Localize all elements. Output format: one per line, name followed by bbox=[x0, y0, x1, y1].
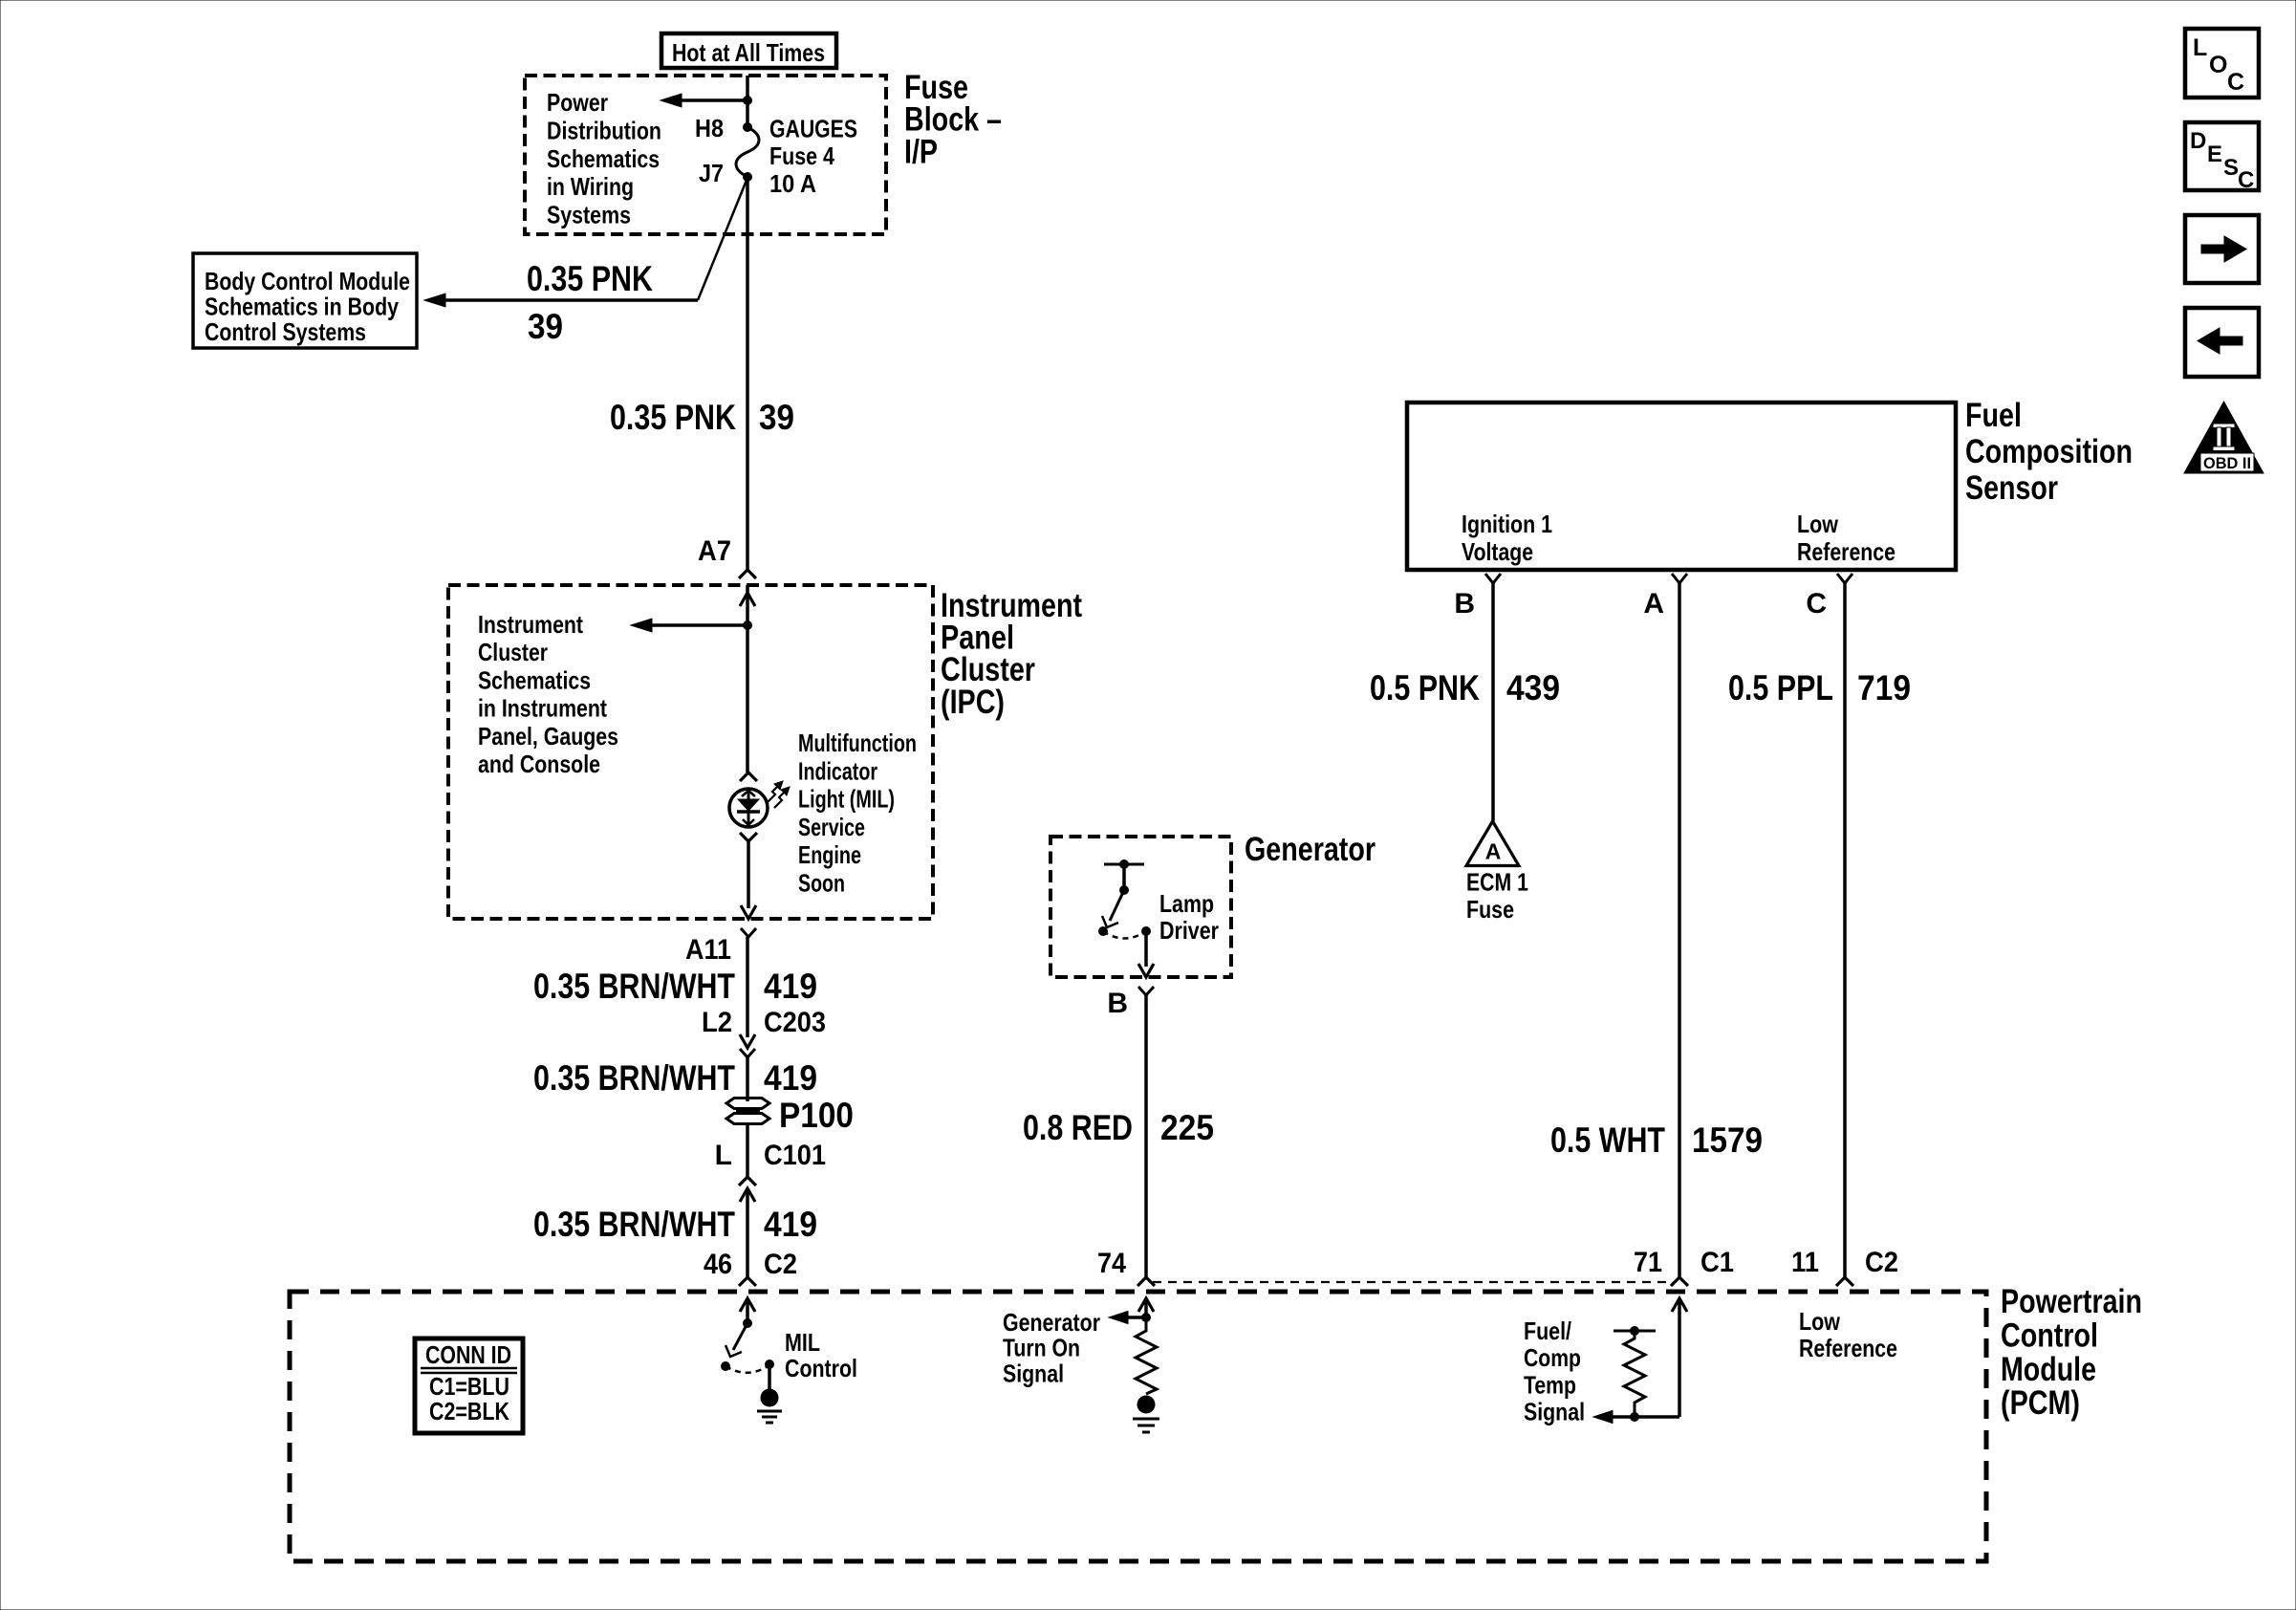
svg-text:11: 11 bbox=[1791, 1247, 1819, 1278]
svg-text:Service: Service bbox=[798, 813, 865, 841]
svg-text:Voltage: Voltage bbox=[1462, 537, 1533, 566]
svg-text:Cluster: Cluster bbox=[478, 638, 548, 666]
svg-text:Power: Power bbox=[547, 88, 608, 117]
svg-text:225: 225 bbox=[1160, 1108, 1214, 1147]
svg-text:Driver: Driver bbox=[1159, 916, 1219, 945]
svg-text:Low: Low bbox=[1799, 1307, 1841, 1336]
svg-text:ECM 1: ECM 1 bbox=[1466, 868, 1528, 897]
svg-text:A: A bbox=[1643, 588, 1664, 620]
svg-text:Lamp: Lamp bbox=[1159, 889, 1214, 918]
svg-text:Schematics in Body: Schematics in Body bbox=[205, 293, 399, 321]
svg-text:E: E bbox=[2207, 141, 2222, 167]
svg-text:Fuel/: Fuel/ bbox=[1524, 1316, 1571, 1345]
svg-text:Fuel: Fuel bbox=[1965, 397, 2022, 434]
svg-text:Indicator: Indicator bbox=[798, 756, 877, 785]
svg-text:S: S bbox=[2223, 155, 2239, 181]
svg-text:I/P: I/P bbox=[904, 133, 938, 170]
svg-text:0.35 PNK: 0.35 PNK bbox=[527, 259, 653, 298]
svg-text:Multifunction: Multifunction bbox=[798, 729, 917, 757]
svg-text:Control: Control bbox=[785, 1354, 857, 1382]
svg-text:P100: P100 bbox=[779, 1096, 854, 1135]
svg-text:C101: C101 bbox=[764, 1140, 826, 1171]
svg-text:(PCM): (PCM) bbox=[2001, 1384, 2080, 1422]
svg-text:Hot at All Times: Hot at All Times bbox=[672, 38, 825, 67]
svg-text:A11: A11 bbox=[685, 934, 731, 966]
svg-text:0.35 BRN/WHT: 0.35 BRN/WHT bbox=[533, 1205, 735, 1244]
svg-text:C2: C2 bbox=[764, 1249, 797, 1280]
svg-text:Comp: Comp bbox=[1524, 1343, 1581, 1372]
svg-text:(IPC): (IPC) bbox=[941, 684, 1005, 721]
svg-text:0.5 PPL: 0.5 PPL bbox=[1728, 668, 1833, 707]
svg-text:B: B bbox=[1454, 588, 1475, 620]
svg-text:Panel, Gauges: Panel, Gauges bbox=[478, 722, 618, 751]
svg-text:C: C bbox=[2238, 167, 2254, 193]
svg-text:GAUGES: GAUGES bbox=[769, 115, 857, 143]
svg-text:in Instrument: in Instrument bbox=[478, 694, 607, 723]
svg-text:A7: A7 bbox=[698, 535, 731, 567]
svg-text:OBD II: OBD II bbox=[2203, 454, 2251, 472]
svg-text:Reference: Reference bbox=[1799, 1334, 1897, 1362]
svg-text:L: L bbox=[715, 1140, 732, 1171]
svg-text:Distribution: Distribution bbox=[547, 116, 661, 144]
svg-text:Fuse: Fuse bbox=[1466, 895, 1514, 924]
svg-text:Body Control Module: Body Control Module bbox=[205, 267, 410, 295]
svg-text:L2: L2 bbox=[702, 1007, 732, 1038]
svg-text:46: 46 bbox=[704, 1249, 732, 1280]
svg-text:C2: C2 bbox=[1865, 1247, 1898, 1278]
svg-text:C203: C203 bbox=[764, 1007, 826, 1038]
svg-text:C2=BLK: C2=BLK bbox=[429, 1397, 509, 1425]
svg-text:Signal: Signal bbox=[1524, 1398, 1585, 1426]
svg-text:Fuse 4: Fuse 4 bbox=[769, 141, 834, 170]
svg-text:Signal: Signal bbox=[1003, 1359, 1064, 1387]
svg-text:Engine: Engine bbox=[798, 840, 861, 869]
svg-text:0.35 BRN/WHT: 0.35 BRN/WHT bbox=[533, 967, 735, 1006]
svg-text:Control: Control bbox=[2001, 1316, 2098, 1354]
svg-text:C1: C1 bbox=[1700, 1247, 1734, 1278]
svg-text:Systems: Systems bbox=[547, 201, 631, 229]
svg-text:Light (MIL): Light (MIL) bbox=[798, 785, 895, 814]
svg-text:Generator: Generator bbox=[1245, 831, 1375, 868]
svg-text:39: 39 bbox=[759, 398, 794, 437]
svg-text:J7: J7 bbox=[699, 159, 724, 187]
svg-text:719: 719 bbox=[1857, 668, 1911, 707]
svg-text:Low: Low bbox=[1797, 510, 1839, 538]
svg-text:Instrument: Instrument bbox=[478, 610, 583, 639]
svg-text:C: C bbox=[2227, 69, 2244, 96]
svg-text:L: L bbox=[2193, 34, 2207, 61]
svg-text:Temp: Temp bbox=[1524, 1370, 1576, 1399]
svg-text:Schematics: Schematics bbox=[547, 144, 660, 173]
svg-text:439: 439 bbox=[1506, 668, 1560, 707]
svg-text:O: O bbox=[2209, 52, 2227, 78]
svg-text:Powertrain: Powertrain bbox=[2001, 1283, 2142, 1320]
svg-text:in Wiring: in Wiring bbox=[547, 172, 634, 201]
svg-text:Soon: Soon bbox=[798, 869, 845, 898]
svg-text:74: 74 bbox=[1097, 1248, 1126, 1279]
svg-text:419: 419 bbox=[764, 967, 817, 1006]
svg-text:Sensor: Sensor bbox=[1965, 469, 2058, 507]
svg-text:Module: Module bbox=[2001, 1351, 2096, 1388]
svg-text:Generator: Generator bbox=[1003, 1308, 1100, 1337]
svg-text:Composition: Composition bbox=[1965, 433, 2133, 470]
svg-text:419: 419 bbox=[764, 1205, 817, 1244]
svg-text:0.35 PNK: 0.35 PNK bbox=[610, 398, 736, 437]
svg-text:A: A bbox=[1485, 839, 1502, 864]
svg-text:C: C bbox=[1806, 588, 1827, 620]
svg-text:B: B bbox=[1107, 988, 1128, 1019]
svg-text:419: 419 bbox=[764, 1058, 817, 1098]
svg-text:Ignition 1: Ignition 1 bbox=[1462, 510, 1552, 538]
svg-text:Turn On: Turn On bbox=[1003, 1334, 1080, 1362]
svg-text:Control Systems: Control Systems bbox=[205, 317, 366, 346]
svg-text:39: 39 bbox=[528, 307, 563, 346]
svg-text:0.5 PNK: 0.5 PNK bbox=[1370, 668, 1480, 707]
svg-text:0.35 BRN/WHT: 0.35 BRN/WHT bbox=[533, 1058, 735, 1098]
svg-text:Schematics: Schematics bbox=[478, 665, 591, 694]
svg-text:Reference: Reference bbox=[1797, 537, 1895, 566]
svg-text:MIL: MIL bbox=[785, 1328, 820, 1357]
svg-text:1579: 1579 bbox=[1692, 1120, 1763, 1160]
svg-text:71: 71 bbox=[1634, 1247, 1662, 1278]
svg-text:0.5 WHT: 0.5 WHT bbox=[1550, 1120, 1665, 1160]
svg-text:0.8 RED: 0.8 RED bbox=[1023, 1108, 1133, 1147]
svg-text:D: D bbox=[2190, 128, 2206, 154]
svg-text:CONN ID: CONN ID bbox=[425, 1340, 511, 1369]
svg-text:10 A: 10 A bbox=[769, 169, 816, 198]
svg-text:and Console: and Console bbox=[478, 750, 600, 778]
svg-text:H8: H8 bbox=[695, 114, 724, 142]
